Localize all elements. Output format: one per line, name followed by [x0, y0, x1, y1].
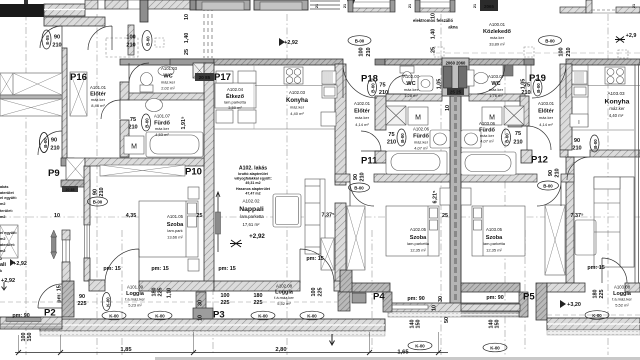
- Konyha A102 low cabinet: [321, 112, 336, 126]
- svg-text:máz.ker: máz.ker: [161, 80, 176, 85]
- svg-text:f.á.máz.ker: f.á.máz.ker: [125, 297, 145, 302]
- Fürdő A102 west wall x375-386 y96-130: [375, 96, 386, 130]
- window x128-140: [128, 0, 140, 9]
- svg-text:A101.05: A101.05: [167, 214, 184, 219]
- Szoba A102.05 door arc: [350, 182, 374, 206]
- svg-text:90: 90: [93, 189, 99, 195]
- svg-text:20 85: 20 85: [66, 188, 75, 192]
- Fürdő/Szoba wall y174-182 x461-574 with door opening x537-561: [461, 174, 537, 182]
- svg-text:210: 210: [387, 140, 396, 146]
- svg-text:21: 21: [408, 4, 412, 8]
- party wall A102/A103 gray core x450-461 y96-310: [450, 96, 461, 310]
- WC A101.03 washbasin: [158, 66, 174, 76]
- P4 corner block: [340, 270, 352, 292]
- svg-text:21: 21: [343, 4, 347, 8]
- svg-text:B-00: B-00: [43, 138, 48, 148]
- svg-text:2,02 m²: 2,02 m²: [161, 86, 175, 91]
- neighbor loggia floor dashes: [0, 301, 62, 303]
- window frame x322-340: [310, 1, 340, 9]
- upper parapet band x85-190: [85, 0, 98, 9]
- party wall A101/A102 x204-214 y63-283: [204, 63, 214, 283]
- svg-text:máz.ker: máz.ker: [290, 105, 305, 110]
- svg-text:1,40: 1,40: [431, 29, 437, 40]
- A103 south wall piece x625-640: [625, 283, 640, 292]
- axis vertical x213: [212, 180, 214, 355]
- oval B-00 szoba A102: [349, 183, 370, 192]
- svg-text:máz.ker: máz.ker: [489, 87, 504, 92]
- svg-text:4,40 m²: 4,40 m²: [290, 111, 304, 116]
- A102.05 nightstand: [440, 188, 450, 205]
- neighbor apt wardrobe row 2: [0, 99, 62, 116]
- svg-text:M: M: [131, 144, 137, 151]
- svg-text:21: 21: [473, 4, 477, 8]
- P9 area door arc: [38, 131, 62, 155]
- svg-text:m2: m2: [0, 237, 6, 241]
- svg-text:A102. lakás: A102. lakás: [239, 166, 267, 172]
- svg-text:225: 225: [318, 288, 324, 297]
- svg-text:K-00: K-00: [307, 314, 317, 319]
- svg-text:10: 10: [54, 213, 60, 219]
- svg-text:K-00: K-00: [490, 346, 500, 351]
- interior wall x120-129 y82-100: [120, 82, 129, 100]
- dashed wardrobe outline in A101 Elotér: [106, 38, 138, 57]
- svg-text:akna: akna: [448, 25, 458, 30]
- svg-text:47,47 m2: 47,47 m2: [245, 192, 260, 196]
- corner block at P9: [61, 158, 74, 166]
- WC A103.07 toilet (tank at west wall): [467, 70, 474, 86]
- svg-text:máz.ker: máz.ker: [480, 133, 495, 138]
- svg-text:Előtér: Előtér: [354, 109, 371, 115]
- svg-text:E-05: E-05: [45, 35, 50, 45]
- svg-text:150: 150: [27, 333, 33, 342]
- svg-text:30: 30: [438, 296, 444, 302]
- Étkező/Konyha divider line: [253, 65, 255, 129]
- svg-text:25: 25: [442, 213, 448, 219]
- svg-text:210: 210: [360, 172, 366, 181]
- WC/Elotér divider lines: [525, 64, 527, 94]
- down arrows: [330, 334, 335, 345]
- svg-text:A103.01: A103.01: [538, 101, 555, 106]
- svg-text:90: 90: [548, 170, 554, 176]
- svg-text:vályogfalakkal együtt:: vályogfalakkal együtt:: [234, 177, 272, 181]
- svg-text:M: M: [415, 115, 421, 122]
- svg-text:bruttó alapterület: bruttó alapterület: [238, 172, 268, 176]
- svg-text:225: 225: [254, 300, 263, 306]
- entry door stub x128-134: [128, 25, 134, 55]
- svg-text:pm: 90: pm: 90: [12, 313, 29, 319]
- oval B-00 A101 fürdő door: [142, 114, 151, 131]
- neighbor apt wardrobe row 1: [0, 73, 62, 95]
- Étkező chair bottom-right: [238, 110, 256, 123]
- svg-text:7,37⁵: 7,37⁵: [570, 213, 583, 219]
- black tag 2085 at P9: [62, 186, 78, 192]
- central shaft head x442-469 y58-96: [442, 58, 469, 96]
- svg-text:+2,92: +2,92: [284, 40, 298, 46]
- Nappali A102 sofa: [305, 179, 325, 254]
- down arrow left edge: [2, 282, 7, 290]
- Fürdő A101.07 door arc: [101, 100, 120, 119]
- north arrow black triangle: [347, 0, 355, 10]
- svg-text:75: 75: [379, 83, 385, 89]
- A102 shaft X-box: [386, 106, 406, 125]
- svg-text:B-00: B-00: [355, 39, 365, 44]
- corridor door opening A102 x343-376: [375, 59, 385, 65]
- svg-text:4,40 m²: 4,40 m²: [609, 113, 624, 118]
- svg-text:4,53 m²: 4,53 m²: [155, 132, 169, 137]
- svg-text:A100.01: A100.01: [489, 22, 506, 27]
- svg-text:lam.park: lam.park: [167, 228, 182, 233]
- dashed axis label box left: [155, 38, 164, 47]
- svg-text:100: 100: [221, 293, 230, 299]
- svg-text:pm: 90: pm: 90: [486, 295, 503, 301]
- window in szoba west wall y225-258: [85, 225, 90, 258]
- A103 Fürdő washbasin: [461, 130, 481, 148]
- svg-text:A102.07: A102.07: [403, 74, 420, 79]
- window glazing in parapet A102.05: [392, 305, 428, 309]
- oval B-00 A101 szoba west: [88, 197, 108, 206]
- svg-text:5,52 m²: 5,52 m²: [615, 303, 629, 308]
- svg-text:210: 210: [513, 140, 522, 146]
- svg-text:2060 2060: 2060 2060: [446, 61, 466, 66]
- svg-text:210: 210: [52, 43, 61, 49]
- axis vertical x441: [440, 14, 442, 355]
- svg-text:lam.parketta: lam.parketta: [224, 100, 247, 105]
- svg-text:150: 150: [495, 320, 501, 329]
- level flags: [10, 38, 566, 308]
- shaft dark duct left: [444, 66, 453, 88]
- gray pillar x190: [190, 0, 196, 10]
- Konyha A102 counter front edge: [255, 85, 322, 87]
- svg-text:f.á.máz.ker: f.á.máz.ker: [274, 295, 294, 300]
- svg-text:4,07 m²: 4,07 m²: [480, 139, 494, 144]
- oval B-00 P9 door: [40, 133, 49, 153]
- svg-text:P3: P3: [213, 310, 225, 321]
- A101 entry wall band y17-26: [44, 17, 105, 26]
- Étkező chair bottom-left: [216, 110, 233, 123]
- axis vertical x525: [524, 230, 526, 350]
- dark pillar x140-148: [140, 0, 148, 22]
- elektromos akna black box top: [480, 0, 498, 11]
- wall A103 Elotér east x560-572 y64-150: [560, 64, 572, 150]
- corridor top recess 2: [415, 0, 420, 12]
- svg-text:P18: P18: [361, 74, 378, 85]
- interior wall x120-129 y120-157: [120, 120, 129, 157]
- Nappali A102 south wall corner x334-352: [334, 281, 352, 291]
- Szoba A103.05 south wall x461-520 y283-292: [461, 283, 520, 292]
- Szoba A102.05 south wall x334-390 y283-292: [340, 283, 390, 292]
- loggia floor dashes: [68, 301, 196, 303]
- svg-text:10: 10: [184, 14, 190, 20]
- svg-text:Konyha: Konyha: [286, 98, 309, 104]
- svg-text:75: 75: [130, 117, 136, 123]
- svg-text:B-00: B-00: [145, 118, 150, 128]
- svg-text:el együtt:: el együtt:: [0, 196, 17, 200]
- Konyha A102 fridge striped: [322, 71, 336, 84]
- oval B-00 P9 door: [40, 133, 49, 153]
- svg-text:pm: 15: pm: 15: [218, 266, 235, 272]
- left cut text block: [0, 185, 17, 273]
- svg-text:1,05: 1,05: [521, 79, 527, 90]
- svg-text:m2: m2: [0, 215, 6, 219]
- loggia divider stub P3: [196, 292, 206, 331]
- svg-text:B-00: B-00: [400, 133, 405, 143]
- svg-text:Hasznos alapterület: Hasznos alapterület: [236, 187, 271, 191]
- svg-text:m2: m2: [0, 202, 6, 206]
- svg-text:K-00: K-00: [109, 314, 119, 319]
- svg-text:A101.03: A101.03: [161, 66, 178, 71]
- svg-text:10: 10: [445, 105, 451, 111]
- svg-text:A103.08: A103.08: [614, 285, 631, 290]
- svg-text:A101.09: A101.09: [127, 285, 144, 290]
- A103 Nappali door arc (to Konyha room): [567, 157, 590, 180]
- right loggia parapet band y318-330 x547-640: [547, 318, 640, 330]
- svg-text:21: 21: [315, 4, 319, 8]
- WC A102.07 toilet: [400, 66, 414, 73]
- A103 loggia door arc: [602, 258, 627, 283]
- axis vertical x97: [96, 14, 98, 355]
- svg-text:75: 75: [388, 132, 394, 138]
- svg-text:akás: akás: [0, 185, 8, 189]
- parapet lower layer dotted: [388, 312, 523, 317]
- svg-text:1,76 m²: 1,76 m²: [489, 93, 503, 98]
- A103.05 nightstand: [461, 188, 471, 205]
- svg-text:210: 210: [50, 146, 59, 152]
- axis vertical x287: [286, 14, 288, 355]
- west wall x62-67 main run y48-158: [62, 48, 67, 158]
- svg-text:K-00: K-00: [106, 297, 111, 307]
- WC A103 south wall y94-101 x469-525: [469, 94, 525, 101]
- svg-text:B-00: B-00: [593, 139, 598, 149]
- svg-text:pm: 15: pm: 15: [57, 285, 63, 302]
- oval B-00 szoba A103: [538, 181, 559, 190]
- svg-text:B-00: B-00: [536, 83, 541, 93]
- svg-text:10: 10: [431, 13, 437, 19]
- A102 washer M: [408, 107, 428, 125]
- svg-text:aterület:: aterület:: [0, 243, 15, 247]
- Étkező chair top-left: [216, 71, 233, 83]
- shaft with X behind WC: [193, 63, 206, 78]
- svg-text:B-00: B-00: [543, 184, 553, 189]
- svg-text:K-00: K-00: [258, 314, 268, 319]
- svg-text:20 85: 20 85: [199, 75, 211, 80]
- shaft label 25/25 black box: [447, 88, 464, 95]
- long wardrobe atop A101 Szoba: [100, 165, 185, 176]
- svg-text:90: 90: [54, 35, 60, 41]
- divider band: [0, 95, 62, 99]
- svg-text:A103.07: A103.07: [488, 74, 505, 79]
- axis vertical x122: [121, 230, 123, 355]
- svg-text:6,21⁵: 6,21⁵: [433, 190, 439, 203]
- szoba west wall y258-281: [84, 258, 90, 281]
- Étkező table: [215, 83, 256, 108]
- svg-text:P19: P19: [529, 73, 546, 84]
- A103.02 sofa L: [594, 177, 634, 267]
- Szoba A103.05 door arc: [537, 182, 561, 206]
- svg-text:180: 180: [593, 290, 599, 299]
- A103 Nappali south wall y283-292 x547-585: [547, 283, 585, 292]
- svg-text:+2,92: +2,92: [249, 233, 265, 240]
- oval B-00 fürdő A102: [397, 129, 406, 146]
- WC A101.03 toilet: [140, 85, 153, 92]
- svg-text:90: 90: [79, 294, 85, 300]
- A101 Szoba loggia door arc: [105, 249, 139, 283]
- svg-text:lam.parketta: lam.parketta: [483, 241, 506, 246]
- svg-text:50: 50: [444, 317, 450, 323]
- svg-text:máz.ker: máz.ker: [539, 115, 554, 120]
- Étkező chair top-right: [238, 71, 256, 83]
- Fürdő A103 east wall x520-529 y96-126: [520, 96, 529, 126]
- svg-text:I: I: [578, 120, 579, 126]
- Konyha A103 stove: [605, 67, 625, 84]
- corridor top recess 1: jambs + sill: [348, 0, 353, 12]
- svg-text:A103.06: A103.06: [479, 121, 496, 126]
- svg-text:+2,92: +2,92: [13, 261, 27, 267]
- svg-text:75: 75: [515, 131, 521, 137]
- WC A102.07 door arc: [388, 75, 407, 94]
- svg-text:4,14 m²: 4,14 m²: [355, 122, 369, 127]
- svg-text:K-00: K-00: [155, 314, 165, 319]
- svg-text:terület:: terület:: [0, 209, 13, 213]
- corridor south wall y56-64 x566-640: [566, 59, 640, 65]
- Konyha A103 fridge striped: [572, 71, 587, 84]
- svg-text:A103.03: A103.03: [607, 91, 625, 96]
- svg-text:4,35: 4,35: [126, 213, 137, 219]
- axis horizontal main y215: [0, 216, 640, 218]
- svg-text:1,28 m²: 1,28 m²: [404, 93, 418, 98]
- WC/Elotér wall A101 y93-100 x129-204: [129, 93, 204, 100]
- svg-text:1,10: 1,10: [167, 288, 173, 299]
- svg-text:pm: 15: pm: 15: [306, 256, 323, 262]
- svg-text:máz.ker: máz.ker: [404, 87, 419, 92]
- svg-text:B-00: B-00: [354, 186, 364, 191]
- top exterior wall hatched x44-85: [44, 4, 85, 16]
- corridor south wall y56-64 x214-343: [214, 59, 343, 65]
- neighbor wall x62-70 pieces with window: [62, 230, 70, 240]
- svg-text:225: 225: [78, 301, 87, 307]
- Szoba A101 south wall y281-291 x139-214: [139, 281, 214, 291]
- A101.05 bed: [139, 201, 198, 257]
- svg-text:A101.01: A101.01: [90, 85, 107, 90]
- left facade section band x0-62 y317-329: [0, 317, 62, 329]
- svg-text:pm: 15: pm: 15: [103, 266, 120, 272]
- svg-text:P12: P12: [531, 155, 548, 166]
- svg-text:B-00: B-00: [371, 83, 376, 93]
- oval B-00 corridor A102: [348, 36, 371, 46]
- A103 washer M: [482, 107, 502, 125]
- black wall section top-left: [0, 4, 44, 17]
- svg-text:4,14 m²: 4,14 m²: [539, 122, 553, 127]
- Fürdő A101.07 washbasin: [146, 99, 163, 112]
- Fürdő A101.07 washer M: [124, 136, 144, 154]
- WC A103.07 duct box: [503, 65, 513, 76]
- svg-text:lam.parketta: lam.parketta: [240, 214, 264, 219]
- A102 entry door arc: [343, 64, 377, 98]
- wall stub x586-592: [586, 0, 592, 13]
- svg-text:1,40: 1,40: [184, 33, 190, 44]
- elektromos akna dashed duct x203-213: [204, 0, 212, 58]
- svg-text:210: 210: [555, 168, 561, 177]
- axis vertical x505: [504, 60, 506, 355]
- Nappali A102 loggia door arc: [300, 249, 334, 283]
- svg-text:100: 100: [311, 288, 317, 297]
- Nappali A102 table: [273, 194, 301, 227]
- svg-text:225: 225: [599, 290, 605, 299]
- corridor floor dashed line: [436, 52, 640, 54]
- shaft dark duct right: [459, 66, 468, 88]
- window glazing in parapet A103.05: [482, 305, 518, 309]
- svg-text:210: 210: [128, 125, 137, 131]
- svg-text:aterület: aterület: [0, 191, 14, 195]
- svg-text:3,50 m²: 3,50 m²: [228, 105, 242, 110]
- dashed axis label box mid: [434, 47, 444, 57]
- svg-text:100: 100: [359, 47, 365, 56]
- svg-text:210: 210: [572, 146, 581, 152]
- svg-text:10: 10: [198, 315, 204, 321]
- axis stub marker x26: [24, 0, 28, 4]
- nightstand bottom: [188, 259, 199, 271]
- svg-text:máz.ker: máz.ker: [414, 140, 429, 145]
- axis vertical x372: [371, 230, 373, 350]
- Fürdő A102.06 door arc: [361, 131, 381, 151]
- svg-text:A101.07: A101.07: [154, 114, 171, 119]
- svg-text:5,52 m²: 5,52 m²: [277, 301, 291, 306]
- svg-text:A102.01: A102.01: [354, 101, 371, 106]
- left loggia west wall x62-74: [62, 281, 74, 317]
- svg-text:el együtt:: el együtt:: [0, 231, 17, 235]
- svg-text:210: 210: [521, 90, 530, 96]
- svg-text:12,35 m²: 12,35 m²: [410, 248, 426, 253]
- tall X shaft right of P16: [70, 72, 87, 116]
- svg-text:17,61 m²: 17,61 m²: [243, 222, 261, 227]
- A103.02 table: [575, 220, 596, 255]
- svg-text:150: 150: [416, 320, 422, 329]
- corridor top right wall band x560-586: [560, 7, 586, 13]
- oval B-00 corridor A103: [539, 36, 562, 46]
- svg-text:P9: P9: [48, 168, 60, 179]
- svg-text:máz.ker: máz.ker: [609, 106, 625, 111]
- svg-text:10: 10: [432, 305, 438, 311]
- svg-text:13,66 m²: 13,66 m²: [167, 235, 183, 240]
- oval B-00 P19: [533, 79, 542, 96]
- 20/85 black tag: [195, 73, 214, 81]
- oval B-00 entry A101: [142, 31, 152, 51]
- wall A102 Konyha east x335-346 y64-185: [335, 64, 346, 185]
- A103 shaft X-box: [504, 106, 524, 125]
- svg-text:5,23 m²: 5,23 m²: [128, 303, 142, 308]
- neighbor loggia X-box left bottom: [0, 225, 18, 258]
- corridor south wall left part y55-63 x125-214: [120, 59, 214, 65]
- svg-text:P11: P11: [361, 156, 378, 167]
- svg-text:1,91⁵: 1,91⁵: [181, 116, 187, 129]
- svg-text:30: 30: [198, 300, 204, 306]
- svg-text:225: 225: [158, 288, 164, 297]
- wall A103 y150-157 from x560-640 with door opening: [560, 150, 568, 157]
- svg-text:2065: 2065: [484, 4, 495, 9]
- svg-text:180: 180: [254, 293, 263, 299]
- svg-text:ali: ali: [0, 262, 6, 268]
- svg-text:pm: 15: pm: 15: [151, 266, 168, 272]
- oval E-05: [42, 30, 51, 49]
- svg-text:210: 210: [379, 90, 388, 96]
- Konyha A103 low cabinet with I: [570, 114, 588, 127]
- A102 Fürdő washbasin: [430, 130, 450, 148]
- WC A103.07 door arc: [477, 65, 505, 94]
- svg-text:A102.03: A102.03: [289, 90, 306, 95]
- small vertical risers: [18, 335, 20, 353]
- Nappali A102 cabinet X: [321, 238, 334, 270]
- svg-text:90: 90: [51, 138, 57, 144]
- svg-text:210: 210: [566, 47, 572, 56]
